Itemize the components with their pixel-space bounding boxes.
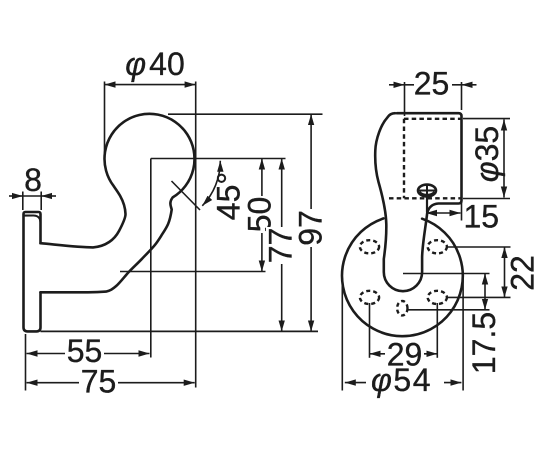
svg-text:φ35: φ35 — [469, 126, 505, 182]
svg-text:75: 75 — [81, 363, 117, 399]
svg-text:17.5: 17.5 — [466, 312, 502, 374]
svg-text:φ54: φ54 — [371, 362, 432, 398]
svg-text:22: 22 — [505, 255, 540, 291]
svg-text:45°: 45° — [210, 172, 246, 220]
svg-text:15: 15 — [464, 199, 500, 235]
svg-text:φ40: φ40 — [125, 46, 184, 82]
svg-text:8: 8 — [24, 162, 42, 198]
svg-text:50: 50 — [242, 197, 278, 233]
svg-text:25: 25 — [414, 66, 450, 102]
svg-text:97: 97 — [293, 210, 329, 246]
